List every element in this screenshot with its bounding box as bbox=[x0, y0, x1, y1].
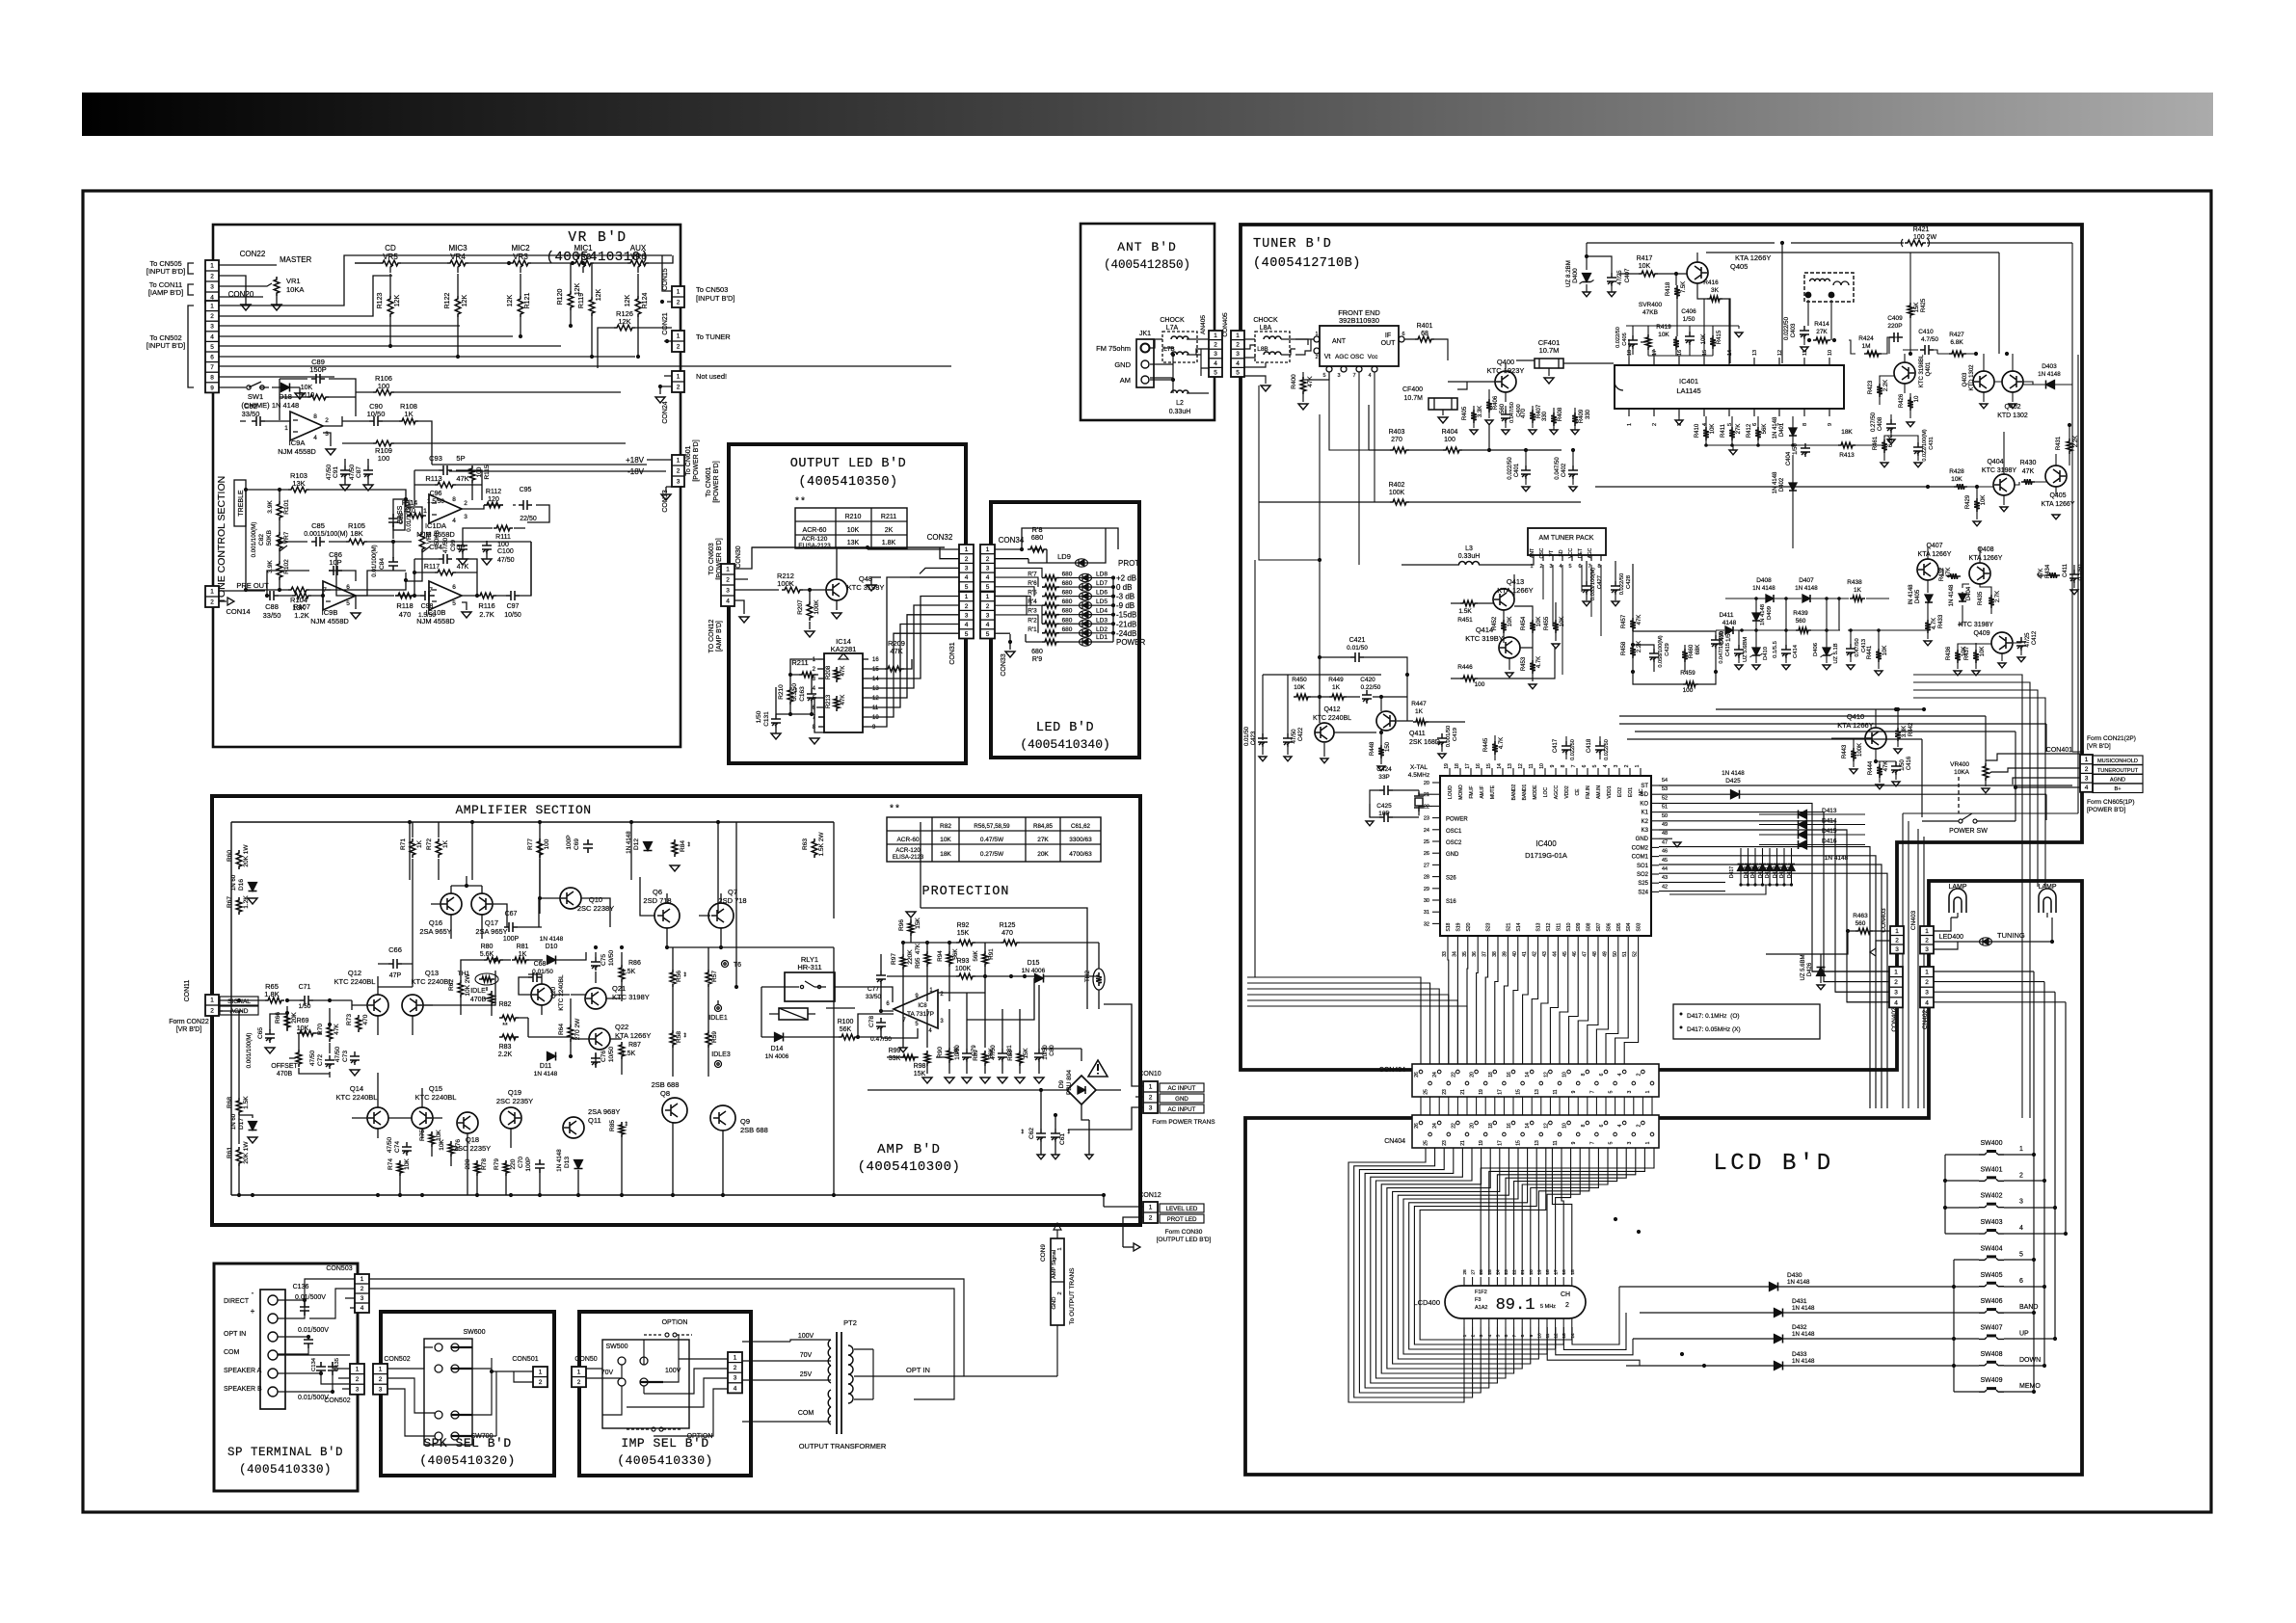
svg-text:R79: R79 bbox=[494, 1158, 500, 1170]
svg-text:GND: GND bbox=[1052, 1297, 1057, 1310]
resistor R406 560 bbox=[1486, 399, 1492, 412]
svg-text:CON403: CON403 bbox=[1881, 908, 1887, 933]
wires relay to opamp bbox=[736, 822, 918, 1038]
svg-text:2: 2 bbox=[577, 1379, 581, 1386]
svg-text:Q409: Q409 bbox=[1973, 630, 1989, 637]
svg-text:1N 4148: 1N 4148 bbox=[1752, 585, 1775, 592]
svg-text:10K: 10K bbox=[1882, 646, 1888, 656]
svg-text:D9: D9 bbox=[1058, 1079, 1065, 1088]
capacitor C99 47/50 bbox=[458, 541, 467, 554]
svg-text:-3 dB: -3 dB bbox=[1116, 593, 1135, 601]
svg-text:2: 2 bbox=[210, 313, 214, 320]
svg-text:4: 4 bbox=[452, 518, 456, 524]
svg-text:22: 22 bbox=[1451, 1072, 1456, 1078]
svg-text:6: 6 bbox=[1599, 1073, 1605, 1076]
svg-text:1/50: 1/50 bbox=[299, 1003, 311, 1010]
svg-text:10K: 10K bbox=[297, 1025, 309, 1032]
svg-text:LD4: LD4 bbox=[1096, 608, 1108, 615]
svg-text:1: 1 bbox=[379, 1367, 383, 1373]
svg-text:0.47/5W: 0.47/5W bbox=[980, 837, 1004, 843]
svg-text:1K: 1K bbox=[404, 410, 413, 418]
svg-text:R96: R96 bbox=[898, 919, 905, 931]
diode D16 1N 60 bbox=[249, 883, 257, 891]
resistor R102 3.9K bbox=[277, 561, 282, 580]
svg-text:SW400: SW400 bbox=[1981, 1140, 2003, 1147]
svg-text:R428: R428 bbox=[1949, 468, 1964, 475]
svg-text:KTC 2240BL: KTC 2240BL bbox=[1313, 715, 1351, 722]
svg-text:S23: S23 bbox=[1486, 922, 1492, 931]
svg-text:1: 1 bbox=[1925, 928, 1929, 935]
svg-text:18K: 18K bbox=[350, 529, 362, 538]
connector CN402 bbox=[1920, 967, 1934, 1007]
svg-text:100V: 100V bbox=[798, 1333, 814, 1340]
svg-text:1/50: 1/50 bbox=[1683, 316, 1695, 323]
svg-text:BAND: BAND bbox=[2019, 1304, 2038, 1311]
svg-text:47KB: 47KB bbox=[1642, 309, 1658, 316]
svg-text:KTC 3198Y: KTC 3198Y bbox=[612, 993, 650, 1001]
svg-text:6.8K: 6.8K bbox=[1888, 436, 1894, 447]
resistor R417 10K bbox=[1639, 271, 1658, 277]
transistor Q410 KTA 1266Y bbox=[1865, 728, 1886, 749]
svg-text:LD7: LD7 bbox=[1096, 580, 1108, 587]
svg-text:10K: 10K bbox=[1981, 495, 1987, 506]
svg-text:33P: 33P bbox=[1378, 774, 1390, 781]
svg-text:VDD2: VDD2 bbox=[1564, 785, 1570, 799]
svg-text:20: 20 bbox=[1470, 1072, 1476, 1078]
svg-text:LOC: LOC bbox=[1543, 786, 1549, 797]
svg-text:SW600: SW600 bbox=[464, 1329, 486, 1336]
svg-text:10K: 10K bbox=[1710, 424, 1716, 435]
svg-text:17: 17 bbox=[1554, 1269, 1560, 1275]
svg-text:D1719G-01A: D1719G-01A bbox=[1525, 851, 1567, 860]
IC400 top pins bbox=[1449, 768, 1451, 776]
capacitor C403 0.022/50 bbox=[1800, 326, 1809, 339]
diode D425 1N 4148 on SD line bbox=[1731, 790, 1740, 799]
svg-text:0.001/50: 0.001/50 bbox=[1446, 726, 1452, 748]
capacitor C400 0.047/50 bbox=[1501, 410, 1510, 423]
resistor R126 12K bbox=[614, 325, 635, 331]
svg-text:D432: D432 bbox=[1792, 1324, 1807, 1331]
svg-text:C417: C417 bbox=[1553, 738, 1559, 753]
svg-text:[VR B'D]: [VR B'D] bbox=[176, 1026, 202, 1033]
svg-text:DET: DET bbox=[1578, 548, 1584, 558]
resistor R407 470 bbox=[1530, 410, 1535, 423]
svg-text:CON12: CON12 bbox=[1138, 1192, 1161, 1199]
svg-text:20: 20 bbox=[1470, 1123, 1476, 1129]
svg-text:C407: C407 bbox=[1624, 268, 1631, 282]
svg-text:K2: K2 bbox=[1642, 819, 1649, 825]
wires IC9B bbox=[265, 571, 406, 609]
capacitor C70 100P bbox=[535, 1159, 545, 1173]
svg-text:R88: R88 bbox=[1007, 1050, 1014, 1061]
svg-text:47: 47 bbox=[1583, 951, 1589, 957]
resistor R430 47K bbox=[2021, 479, 2035, 485]
resistor R453 4.7K bbox=[1530, 660, 1535, 674]
wire feedback IC9A bbox=[280, 379, 356, 420]
svg-text:23: 23 bbox=[1442, 1089, 1448, 1095]
svg-text:R84,85: R84,85 bbox=[1033, 823, 1054, 830]
svg-text:14: 14 bbox=[1525, 1072, 1531, 1078]
svg-text:1N 4006: 1N 4006 bbox=[1022, 968, 1046, 974]
svg-text:2: 2 bbox=[1895, 937, 1899, 944]
svg-text:47K: 47K bbox=[2039, 569, 2044, 579]
svg-text:CN402: CN402 bbox=[1922, 1009, 1929, 1029]
svg-text:Q12: Q12 bbox=[348, 969, 361, 977]
svg-text:R83: R83 bbox=[499, 1044, 512, 1051]
resistor R124 12K bbox=[635, 296, 641, 317]
resistor R110 10K bbox=[307, 394, 329, 400]
svg-text:5: 5 bbox=[452, 600, 456, 607]
svg-text:1N 4148: 1N 4148 bbox=[534, 1071, 558, 1078]
svg-text:0.22/50: 0.22/50 bbox=[1361, 684, 1381, 691]
svg-text:KTA 1266Y: KTA 1266Y bbox=[1837, 721, 1873, 730]
resistor R211 ** bbox=[799, 672, 816, 678]
svg-text:C80: C80 bbox=[1049, 1045, 1055, 1056]
resistor R122 12K bbox=[455, 296, 461, 317]
svg-text:CE: CE bbox=[1575, 788, 1581, 796]
svg-text:8: 8 bbox=[1561, 764, 1566, 767]
svg-text:SW406: SW406 bbox=[1981, 1298, 2003, 1305]
svg-text:R74: R74 bbox=[387, 1158, 394, 1170]
svg-text:1: 1 bbox=[360, 1276, 364, 1283]
capacitor C85 0.0015/100(M) bbox=[311, 537, 325, 546]
stair bus right side bbox=[1913, 675, 2045, 1118]
svg-text:10/50: 10/50 bbox=[954, 1045, 961, 1060]
wire nest left (CN404 to LCD bottom pins) bbox=[1348, 1148, 1572, 1402]
crystal filter CF401 10.7M bbox=[1535, 359, 1563, 368]
svg-text:1.2K: 1.2K bbox=[294, 611, 308, 620]
svg-text:560: 560 bbox=[1855, 920, 1866, 927]
wire long feedback runs bbox=[667, 822, 834, 1195]
resistor R405 3.3K bbox=[1471, 410, 1477, 423]
svg-text:D421: D421 bbox=[1765, 866, 1771, 878]
svg-text:COM2: COM2 bbox=[1632, 845, 1649, 851]
resistor R123 12K bbox=[387, 296, 393, 317]
svg-text:R'3: R'3 bbox=[1028, 608, 1037, 615]
svg-text:F1F2: F1F2 bbox=[1475, 1290, 1487, 1295]
svg-text:C134: C134 bbox=[311, 1357, 317, 1371]
svg-text:ACR-120: ACR-120 bbox=[802, 536, 828, 543]
svg-text:CON405: CON405 bbox=[1222, 312, 1229, 337]
svg-text:100: 100 bbox=[378, 454, 390, 463]
svg-text:R402: R402 bbox=[1389, 482, 1405, 489]
svg-text:D15: D15 bbox=[1028, 960, 1040, 967]
svg-text:4: 4 bbox=[1925, 999, 1929, 1006]
svg-text:R61: R61 bbox=[227, 1147, 233, 1158]
svg-text:1: 1 bbox=[1627, 423, 1633, 426]
resistor R104 13K bbox=[288, 587, 309, 593]
svg-text:1: 1 bbox=[1149, 1084, 1153, 1091]
svg-text:2: 2 bbox=[726, 577, 730, 584]
resistor R87 1.5K bbox=[619, 1042, 625, 1059]
svg-text:VR2: VR2 bbox=[575, 253, 591, 261]
svg-text:10: 10 bbox=[1539, 763, 1545, 769]
resistor R412 56K bbox=[1755, 427, 1761, 440]
svg-text:24: 24 bbox=[1432, 1123, 1438, 1129]
svg-text:R72: R72 bbox=[426, 838, 433, 850]
svg-text:C69: C69 bbox=[574, 838, 580, 850]
top gradient header bar bbox=[82, 93, 2213, 136]
svg-text:1N 4148: 1N 4148 bbox=[1795, 585, 1818, 592]
svg-text:2: 2 bbox=[1539, 564, 1542, 570]
svg-text:LD3: LD3 bbox=[1096, 617, 1108, 624]
capacitor C408 0.27/50 bbox=[1886, 419, 1896, 433]
svg-text:D413: D413 bbox=[1822, 808, 1837, 814]
svg-text:1: 1 bbox=[2085, 757, 2089, 763]
svg-text:2: 2 bbox=[1236, 342, 1240, 349]
resistor R427 6.8K bbox=[1949, 351, 1966, 357]
svg-text:R82: R82 bbox=[499, 1001, 512, 1008]
resistor R212 100K bbox=[782, 587, 803, 593]
svg-text:TREBLE: TREBLE bbox=[238, 490, 245, 517]
svg-text:16: 16 bbox=[1507, 1072, 1512, 1078]
svg-text:100P: 100P bbox=[503, 936, 520, 943]
front end module box bbox=[1320, 326, 1399, 366]
svg-text:D417: 0.05MHz (X): D417: 0.05MHz (X) bbox=[1687, 1026, 1741, 1033]
svg-text:7.5K: 7.5K bbox=[1681, 281, 1687, 293]
svg-text:2: 2 bbox=[986, 556, 990, 563]
svg-text:AN405: AN405 bbox=[1200, 315, 1207, 334]
svg-text:28: 28 bbox=[1424, 875, 1429, 881]
resistor R74 10K bbox=[397, 1160, 403, 1176]
resistor R81 1K bbox=[512, 957, 529, 963]
resistor R60 20K 1W bbox=[236, 850, 242, 869]
svg-text:R'7: R'7 bbox=[1028, 572, 1037, 578]
svg-text:[VR B'D]: [VR B'D] bbox=[2087, 743, 2111, 750]
diode D14 1N 4006 bbox=[775, 1033, 784, 1042]
svg-text:18: 18 bbox=[1455, 763, 1460, 769]
svg-text:12: 12 bbox=[1777, 350, 1783, 356]
svg-text:1K: 1K bbox=[416, 839, 423, 848]
svg-text:VDD1: VDD1 bbox=[1607, 785, 1613, 799]
resistor R433 4.7K bbox=[1925, 620, 1931, 633]
resistor R86 1.5K bbox=[619, 965, 625, 982]
svg-text:K1: K1 bbox=[1642, 811, 1649, 816]
svg-text:4: 4 bbox=[2019, 1225, 2023, 1232]
capacitor C92 33/50 bbox=[252, 416, 265, 426]
OFFSET 470B trimmer bbox=[296, 1050, 302, 1067]
LED LD9 PROT bbox=[1076, 559, 1088, 567]
svg-text:(4005412710B): (4005412710B) bbox=[1253, 256, 1361, 271]
resistor R435 2.7K bbox=[1989, 595, 1994, 608]
svg-text:28: 28 bbox=[1462, 1269, 1468, 1275]
resistor R424 1M bbox=[1864, 351, 1882, 357]
capacitor C76 10/50 bbox=[591, 1053, 601, 1067]
resistor R64 270 2W bbox=[568, 1024, 574, 1042]
svg-text:CON503: CON503 bbox=[326, 1265, 352, 1272]
connector CON50 left bbox=[572, 1367, 586, 1387]
svg-text:2: 2 bbox=[1636, 1124, 1642, 1127]
svg-text:40: 40 bbox=[1512, 951, 1518, 957]
svg-text:(4005410300): (4005410300) bbox=[858, 1159, 961, 1175]
svg-text:OUTPUT TRANSFORMER: OUTPUT TRANSFORMER bbox=[799, 1442, 887, 1450]
resistor R61 20K 1W bbox=[236, 1147, 242, 1166]
svg-text:Q10: Q10 bbox=[589, 895, 602, 904]
svg-text:[OUTPUT LED B'D]: [OUTPUT LED B'D] bbox=[1157, 1237, 1212, 1243]
svg-text:**: ** bbox=[889, 804, 900, 815]
svg-text:R210: R210 bbox=[845, 514, 862, 520]
svg-text:L7A: L7A bbox=[1166, 325, 1179, 332]
capacitor C74 47/50 bbox=[402, 1142, 412, 1156]
svg-text:Q8: Q8 bbox=[660, 1089, 670, 1098]
svg-text:51: 51 bbox=[1622, 951, 1628, 957]
svg-text:KTA 1266Y: KTA 1266Y bbox=[2042, 501, 2075, 508]
svg-text:R448: R448 bbox=[1370, 741, 1375, 756]
resistor R78 220 bbox=[474, 1160, 480, 1176]
svg-text:Q411: Q411 bbox=[1409, 731, 1426, 737]
resistor R'8 680 and top loop bbox=[995, 549, 1040, 559]
svg-text:OSC: OSC bbox=[1350, 354, 1364, 360]
wires upper transistors bbox=[413, 822, 721, 976]
LCD display module LCD400 bbox=[1445, 1286, 1586, 1318]
svg-text:1: 1 bbox=[677, 289, 681, 296]
BASS boxed label bbox=[393, 499, 405, 530]
svg-text:R403: R403 bbox=[1389, 429, 1405, 436]
svg-text:R429: R429 bbox=[1965, 494, 1971, 509]
resistor R414 27K bbox=[1813, 337, 1830, 343]
resistor R404 100 bbox=[1443, 447, 1462, 453]
svg-text:100: 100 bbox=[544, 838, 550, 849]
svg-text:R97: R97 bbox=[891, 953, 897, 965]
svg-text:LD2: LD2 bbox=[1096, 626, 1108, 633]
svg-text:AMPLIFIER SECTION: AMPLIFIER SECTION bbox=[455, 803, 591, 817]
svg-text:EO1: EO1 bbox=[1628, 787, 1634, 797]
capacitor C97 10/50 bbox=[506, 591, 520, 600]
svg-text:IF: IF bbox=[1385, 333, 1391, 339]
transistor Q9 2SB 688 bbox=[710, 1105, 735, 1131]
svg-text:R122: R122 bbox=[444, 293, 451, 309]
svg-text:21: 21 bbox=[1424, 792, 1429, 798]
svg-text:25V: 25V bbox=[800, 1371, 813, 1378]
svg-text:R101: R101 bbox=[283, 499, 290, 515]
svg-text:12K: 12K bbox=[596, 288, 602, 301]
svg-text:1/50: 1/50 bbox=[1726, 630, 1732, 642]
T6 test point bbox=[722, 961, 729, 968]
svg-text:3: 3 bbox=[464, 514, 467, 520]
wires COM SO lines into channel bbox=[1659, 847, 1887, 1108]
svg-text:R447: R447 bbox=[1411, 701, 1427, 707]
svg-text:32: 32 bbox=[1424, 921, 1429, 927]
svg-text:FM.IF: FM.IF bbox=[1469, 785, 1475, 798]
relay RLY1 HR-311 bbox=[785, 972, 835, 1001]
svg-text:1: 1 bbox=[210, 263, 214, 270]
svg-text:R99: R99 bbox=[889, 1048, 901, 1054]
svg-text:8: 8 bbox=[1802, 423, 1808, 426]
svg-text:50KB: 50KB bbox=[266, 530, 273, 545]
svg-text:UZ 5.6BM: UZ 5.6BM bbox=[1801, 954, 1806, 980]
resistor R'9 680 POWER row bbox=[1042, 639, 1059, 645]
resistor R76 10K bbox=[448, 1141, 454, 1157]
svg-text:R434: R434 bbox=[2045, 564, 2051, 578]
svg-text:3.9K: 3.9K bbox=[267, 500, 274, 514]
wire bundle IC400 bottom to CON404 bbox=[1448, 944, 1639, 1064]
svg-text:6: 6 bbox=[1752, 423, 1758, 426]
svg-text:A1A2: A1A2 bbox=[1475, 1305, 1487, 1311]
svg-text:100K: 100K bbox=[777, 579, 794, 588]
svg-text:ACR-120: ACR-120 bbox=[895, 847, 921, 854]
svg-text:7: 7 bbox=[1352, 373, 1355, 379]
svg-text:7: 7 bbox=[1589, 1090, 1595, 1093]
svg-text:D417: D417 bbox=[1729, 866, 1735, 878]
resistor R400 47K bbox=[1300, 377, 1306, 394]
wires output stage bbox=[352, 1073, 723, 1195]
ANT board frame bbox=[1081, 224, 1215, 420]
capacitor C71 1/50 bbox=[300, 996, 313, 1005]
svg-text:R431: R431 bbox=[2056, 436, 2062, 450]
svg-text:10K: 10K bbox=[1980, 647, 1986, 657]
svg-text:10K: 10K bbox=[847, 527, 860, 534]
svg-text:120: 120 bbox=[488, 496, 499, 503]
resistor R'1 680 / LED LD2 -24dB bbox=[1042, 630, 1059, 636]
svg-text:1: 1 bbox=[677, 458, 681, 465]
svg-text:R401: R401 bbox=[1417, 323, 1433, 330]
svg-text:25: 25 bbox=[1424, 1089, 1429, 1095]
svg-text:CON502: CON502 bbox=[324, 1397, 350, 1404]
svg-text:SW409: SW409 bbox=[1981, 1377, 2003, 1384]
capacitor C402 0.047/50 bbox=[1568, 466, 1578, 479]
svg-text:1: 1 bbox=[1462, 1334, 1468, 1337]
svg-text:+: + bbox=[251, 1307, 255, 1316]
svg-text:AGCC: AGCC bbox=[1554, 785, 1560, 799]
svg-text:KTC 2240BL: KTC 2240BL bbox=[415, 1093, 457, 1102]
svg-text:AGC: AGC bbox=[1335, 354, 1348, 360]
svg-text:6: 6 bbox=[452, 584, 456, 591]
svg-text:R208: R208 bbox=[826, 665, 832, 679]
svg-text:D431: D431 bbox=[1792, 1298, 1807, 1305]
svg-text:43: 43 bbox=[1542, 951, 1548, 957]
svg-text:KTA 1266Y: KTA 1266Y bbox=[1969, 555, 2003, 562]
svg-text:25: 25 bbox=[1487, 1269, 1493, 1275]
IC400 GND pin arrow bbox=[1659, 838, 1672, 839]
svg-text:3: 3 bbox=[1614, 764, 1619, 767]
svg-text:14: 14 bbox=[1727, 350, 1733, 356]
svg-text:3K: 3K bbox=[1711, 287, 1720, 294]
svg-text:18K: 18K bbox=[1841, 429, 1853, 436]
svg-text:GND: GND bbox=[1114, 360, 1131, 369]
svg-text:**: ** bbox=[683, 971, 690, 977]
svg-text:680: 680 bbox=[1062, 580, 1073, 587]
svg-text:C422: C422 bbox=[1298, 727, 1304, 741]
svg-text:KA2281: KA2281 bbox=[831, 645, 857, 653]
svg-text:46: 46 bbox=[1572, 951, 1578, 957]
svg-text:Q48: Q48 bbox=[859, 574, 872, 583]
wires to CON10 bbox=[1068, 1004, 1143, 1130]
resistor R415 10K bbox=[1710, 335, 1716, 349]
svg-text:0.022/50: 0.022/50 bbox=[1604, 739, 1610, 760]
transistor Q48 KTC 3198Y bbox=[826, 579, 847, 600]
capacitor C66 47P bbox=[388, 959, 402, 969]
svg-text:[POWER B'D]: [POWER B'D] bbox=[713, 461, 720, 502]
svg-text:10K 2W: 10K 2W bbox=[465, 973, 471, 997]
transistor Q17 2SA 965Y bbox=[471, 893, 493, 915]
svg-text:2: 2 bbox=[325, 417, 329, 424]
chock L8A L8B dashed box bbox=[1255, 332, 1290, 362]
connector CON9 vertical bbox=[1051, 1238, 1064, 1325]
capacitor C77 33/50 bbox=[876, 971, 886, 984]
svg-text:SPEAKER B: SPEAKER B bbox=[224, 1386, 262, 1393]
svg-text:10KA: 10KA bbox=[1954, 769, 1970, 776]
svg-text:C84: C84 bbox=[379, 558, 386, 570]
svg-text:10/50: 10/50 bbox=[1042, 1045, 1049, 1060]
svg-text:4: 4 bbox=[1702, 423, 1708, 426]
svg-text:R211: R211 bbox=[881, 514, 896, 520]
svg-text:R82: R82 bbox=[940, 823, 951, 830]
svg-text:0.33uH: 0.33uH bbox=[1169, 409, 1191, 415]
svg-text:Form CN605(1P): Form CN605(1P) bbox=[2087, 799, 2134, 806]
resistor R425 15K bbox=[1908, 303, 1913, 318]
transistor Q405 KTA 1266Y (AGC) bbox=[1687, 262, 1708, 283]
wire verticals front end to AM pack bbox=[1543, 565, 1601, 675]
